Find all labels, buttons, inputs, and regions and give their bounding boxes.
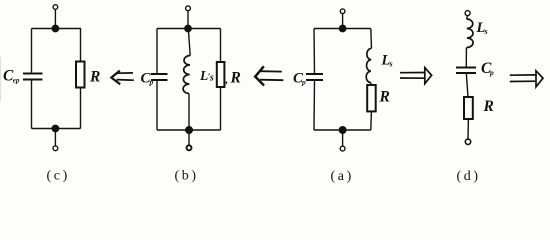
svg-text:(d): (d): [457, 169, 481, 184]
svg-text:R: R: [379, 89, 390, 106]
svg-text:(b): (b): [175, 169, 199, 184]
svg-text:p: p: [301, 78, 306, 87]
svg-text:L′s: L′s: [199, 68, 214, 83]
svg-text:ep: ep: [13, 77, 20, 85]
svg-text:p: p: [149, 78, 154, 87]
svg-text:s: s: [484, 27, 488, 36]
svg-text:(c): (c): [47, 169, 70, 184]
svg-text:(a): (a): [331, 169, 354, 184]
svg-text:R: R: [483, 98, 494, 115]
svg-text:p: p: [489, 68, 494, 77]
svg-text:R: R: [89, 69, 100, 86]
svg-text:,: ,: [225, 74, 228, 86]
svg-text:s: s: [389, 60, 393, 69]
svg-text:R: R: [230, 70, 241, 87]
